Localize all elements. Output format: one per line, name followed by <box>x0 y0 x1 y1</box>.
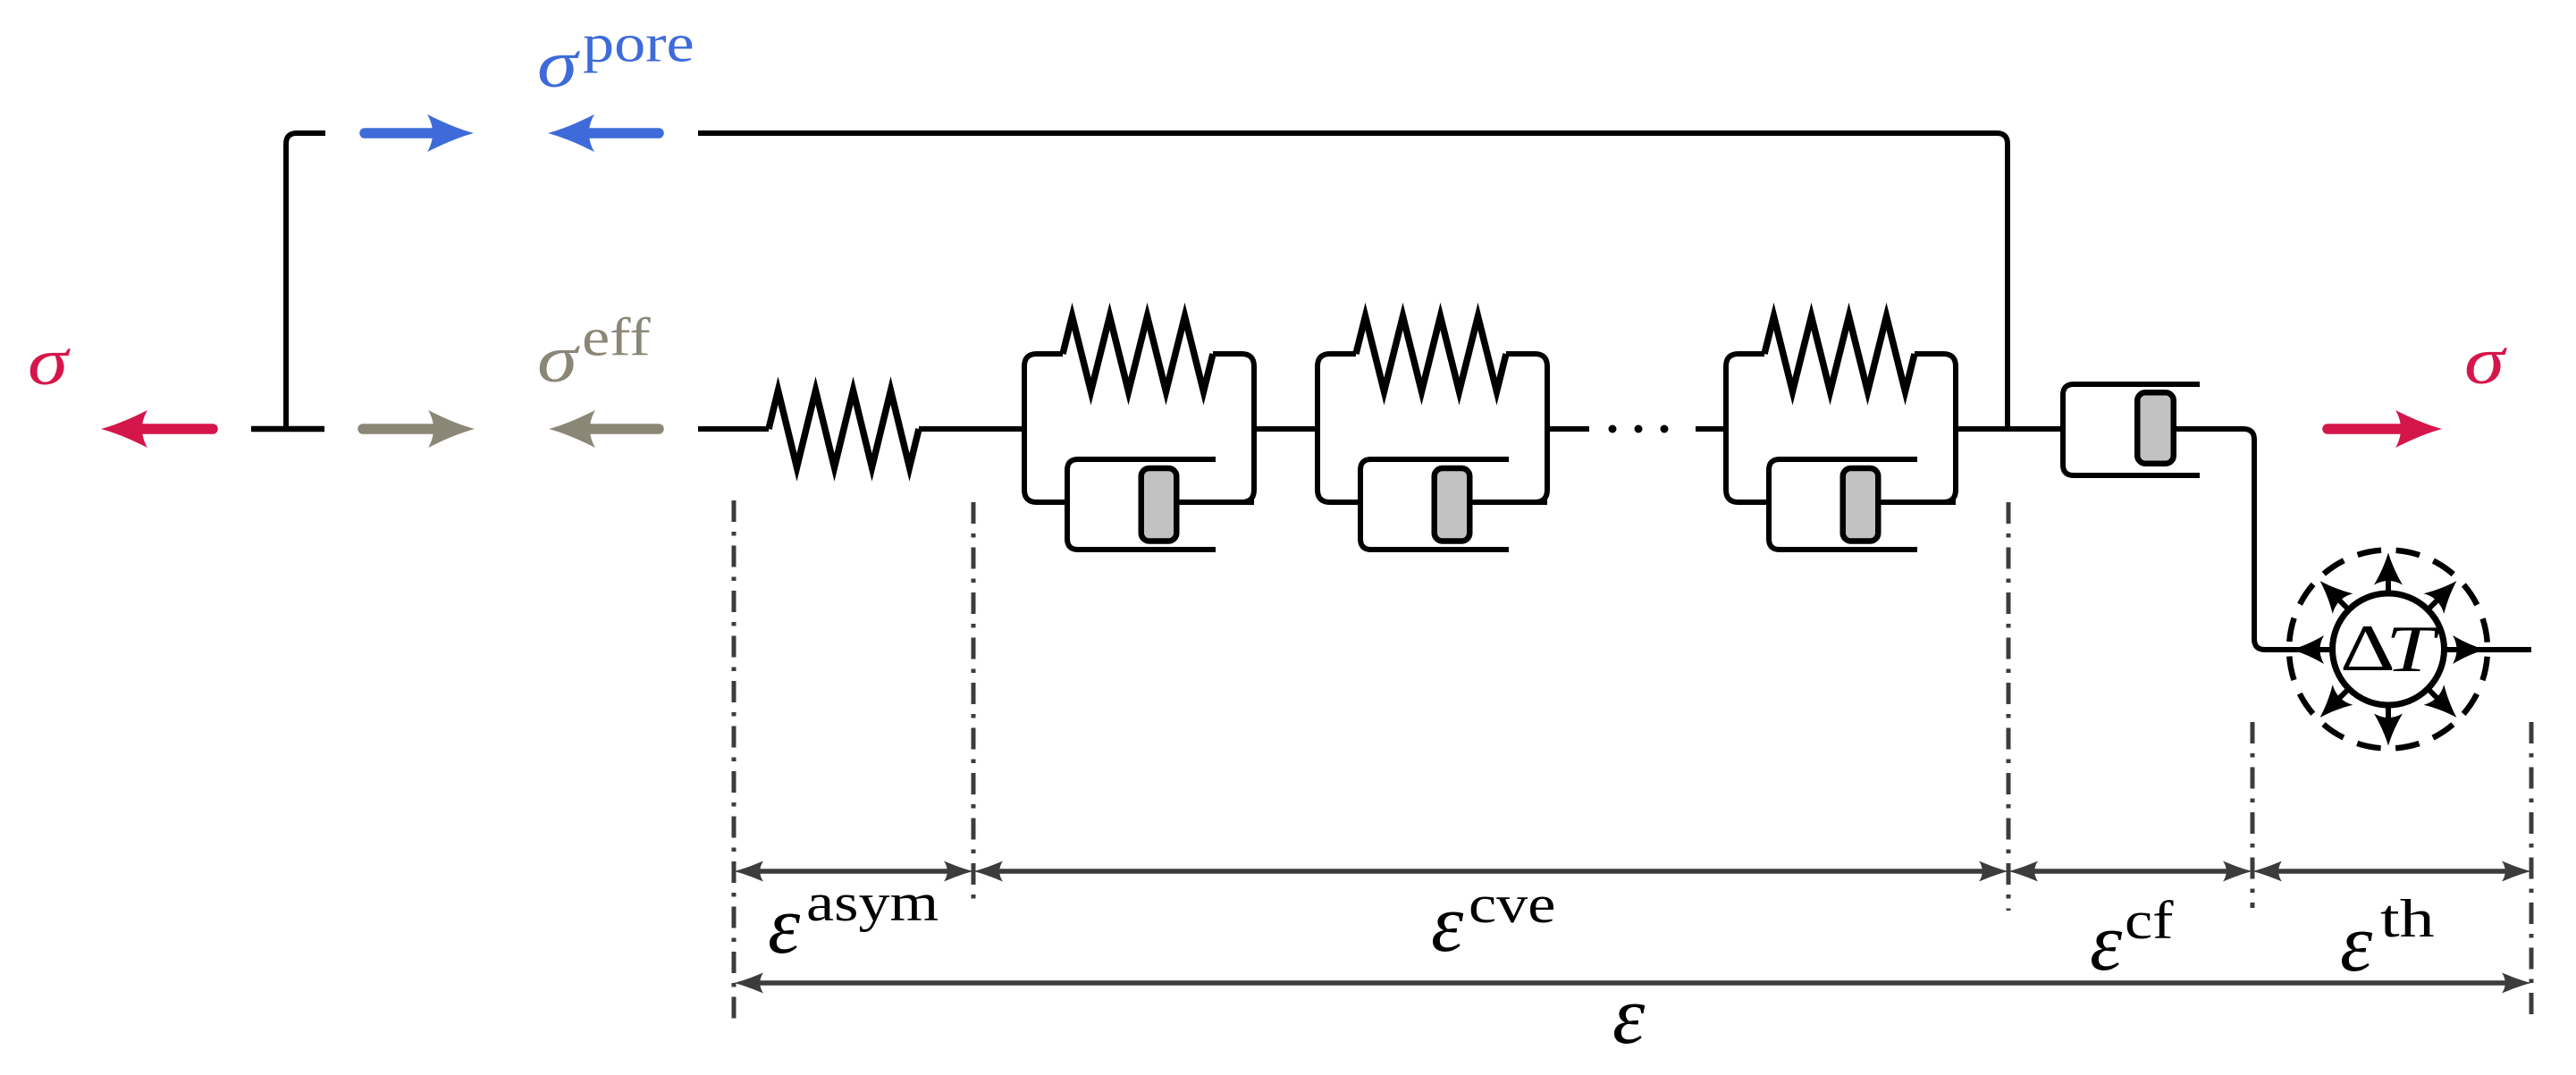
spring of kelvin unit 1 <box>1063 316 1213 391</box>
label sigma eff <box>537 308 651 397</box>
svg-text:ε: ε <box>1431 878 1464 969</box>
force arrow sigma pore right-pointing (blue) <box>365 114 474 152</box>
svg-text:th: th <box>2380 889 2435 948</box>
dimension arrow epsilon th <box>2252 861 2531 882</box>
dimension arrow epsilon asym <box>734 861 973 882</box>
thermal element dashed circle <box>2289 550 2488 749</box>
force arrow sigma left (red) <box>101 410 213 448</box>
kelvin unit 2 frame <box>1317 354 1547 502</box>
wire kelvin1 to kelvin2 <box>1254 426 1317 432</box>
label epsilon cf <box>2090 892 2174 987</box>
svg-text:asym: asym <box>806 874 939 933</box>
kelvin unit 3 frame <box>1726 354 1956 502</box>
ellipsis dots <box>1609 425 1669 433</box>
elastic spring E <box>769 391 919 467</box>
svg-text:σ: σ <box>537 27 581 102</box>
piston of kelvin unit 3 <box>1843 468 1879 542</box>
label epsilon th <box>2340 889 2435 988</box>
wire top pore branch <box>698 133 2008 429</box>
thermal expansion element arrows (radial) <box>2292 553 2485 746</box>
extension line at spring start <box>732 500 737 1019</box>
force arrow sigma pore left-pointing (blue) <box>548 114 659 152</box>
thermal element circle dT <box>2333 593 2445 705</box>
svg-text:cve: cve <box>1469 876 1555 935</box>
force arrow sigma eff right-pointing (olive) <box>363 410 475 448</box>
wire spring to kelvin chain <box>919 426 1024 432</box>
svg-text:cf: cf <box>2125 892 2174 951</box>
piston rod of kelvin unit 1 <box>1158 500 1254 505</box>
kelvin unit 1 frame <box>1024 354 1254 502</box>
wire dots to kelvin3 <box>1696 426 1726 432</box>
label delta T <box>2340 611 2440 685</box>
piston rod of kelvin unit 2 <box>1452 500 1547 505</box>
piston of kelvin unit 2 <box>1435 468 1470 542</box>
dashpot cylinder (series viscous damper) <box>2063 384 2200 475</box>
label epsilon cve <box>1431 876 1555 969</box>
dimension arrow epsilon cf <box>2008 861 2252 882</box>
svg-text:σ: σ <box>537 322 581 397</box>
wire out of thermal element <box>2444 647 2531 652</box>
svg-text:ε: ε <box>1612 970 1646 1061</box>
svg-text:ε: ε <box>768 879 801 970</box>
svg-text:σ: σ <box>2464 323 2508 399</box>
dashpot cylinder of kelvin unit 3 <box>1769 459 1917 550</box>
force arrow sigma right (red) <box>2328 410 2442 448</box>
extension line at right end <box>2530 722 2534 1019</box>
svg-text:σ: σ <box>28 324 72 399</box>
wire kelvin3 to dashpot <box>1956 426 2063 432</box>
wire into elastic spring <box>698 426 769 432</box>
piston rod of kelvin unit 3 <box>1860 500 1956 505</box>
svg-text:pore: pore <box>583 14 695 73</box>
spring of kelvin unit 2 <box>1356 316 1506 391</box>
label sigma left <box>28 324 72 399</box>
label sigma pore <box>537 14 695 102</box>
dimension arrow epsilon total <box>734 973 2531 994</box>
label epsilon asym <box>768 874 939 970</box>
extension line at dashpot start <box>2007 502 2011 911</box>
dashpot piston rod and wire to thermal element <box>2176 429 2335 650</box>
piston of kelvin unit 1 <box>1141 468 1177 542</box>
node split junction left <box>251 133 325 429</box>
dashpot cylinder of kelvin unit 1 <box>1067 459 1216 550</box>
label epsilon total <box>1612 970 1646 1061</box>
dimension arrow epsilon cve <box>973 861 2008 882</box>
svg-text:eff: eff <box>582 308 651 367</box>
label sigma right <box>2464 323 2508 399</box>
svg-text:ε: ε <box>2090 896 2123 987</box>
spring of kelvin unit 3 <box>1764 316 1915 391</box>
dashpot cylinder of kelvin unit 2 <box>1360 459 1509 550</box>
extension line at thermal start <box>2251 722 2255 908</box>
dashpot piston <box>2137 392 2174 464</box>
svg-text:ε: ε <box>2340 897 2373 988</box>
svg-text:T: T <box>2386 612 2440 685</box>
extension line at kelvin chain start <box>972 502 976 908</box>
wire kelvin2 to dots <box>1547 426 1589 432</box>
force arrow sigma eff left-pointing (olive) <box>549 410 659 448</box>
